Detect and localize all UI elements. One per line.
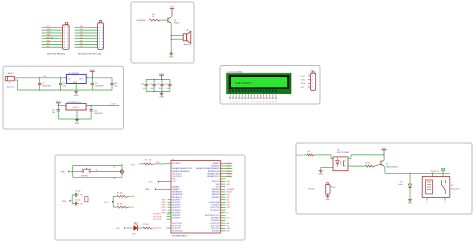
svg-text:D31: D31 [80, 35, 83, 37]
svg-text:15: 15 [272, 102, 274, 104]
svg-text:RELAY: RELAY [297, 154, 304, 157]
svg-text:GND: GND [47, 29, 52, 31]
ground opto [319, 168, 333, 176]
svg-text:PIC16F877A-I/P: PIC16F877A-I/P [172, 235, 188, 238]
module J1 pin header MODULE RFC002 [42, 22, 70, 55]
LCD module box [220, 66, 320, 105]
ground U1 [74, 84, 79, 97]
wire U2 output [86, 105, 119, 106]
svg-text:RB6/AN12/PGC: RB6/AN12/PGC [207, 175, 220, 178]
wire U2 input [58, 105, 66, 106]
svg-text:LS1: LS1 [186, 30, 189, 32]
capacitor C1 22p [72, 191, 80, 197]
svg-text:104: 104 [114, 86, 117, 88]
svg-text:104: 104 [52, 112, 55, 114]
svg-text:100uF/16V: 100uF/16V [94, 113, 104, 115]
svg-text:GND: GND [408, 203, 413, 205]
svg-text:C16: C16 [164, 84, 167, 86]
capacitor C10 104 [110, 81, 117, 90]
svg-text:VCC: VCC [301, 76, 306, 78]
svg-text:LCDRS: LCDRS [227, 173, 232, 175]
svg-text:SW2: SW2 [227, 184, 231, 186]
svg-text:PSP0: PSP0 [162, 199, 166, 201]
svg-text:VCC: VCC [149, 181, 154, 183]
svg-text:GND: GND [116, 228, 121, 230]
capacitor C12 100uF/16V [88, 105, 103, 119]
switch SW1 push button [81, 168, 97, 177]
crystal Y1 [85, 197, 88, 202]
svg-text:RST: RST [156, 162, 159, 164]
power VCC [170, 6, 175, 16]
module J2 pin header MODULE HD PRO 434 [75, 20, 104, 55]
wire top rail [14, 77, 112, 90]
svg-text:GND: GND [62, 201, 67, 203]
svg-text:104: 104 [151, 88, 154, 90]
svg-text:13: 13 [266, 102, 268, 104]
svg-text:RXD: RXD [47, 35, 52, 37]
svg-text:GND: GND [169, 57, 174, 59]
ground [169, 51, 174, 59]
svg-text:RB4/AN11 KBI0: RB4/AN11 KBI0 [207, 172, 219, 175]
capacitor C13 104 [141, 80, 148, 92]
svg-text:3: 3 [236, 102, 237, 104]
power VCC pullups [104, 196, 117, 207]
power VCC to VDD pin [149, 181, 171, 184]
ground decoupling rail [159, 91, 164, 98]
svg-text:GND: GND [145, 189, 150, 191]
svg-text:BUZ: BUZ [227, 231, 230, 233]
wire out rail [89, 77, 113, 81]
svg-text:VCC: VCC [104, 202, 109, 204]
svg-text:C14: C14 [149, 84, 152, 86]
power VCC decoupling rail [159, 73, 164, 79]
svg-text:XT2: XT2 [80, 203, 83, 205]
svg-text:RB1/AN10: RB1/AN10 [211, 165, 219, 168]
wire base [161, 19, 168, 21]
svg-text:D11: D11 [80, 29, 83, 31]
svg-text:SPEAKER: SPEAKER [136, 19, 146, 22]
svg-text:100uF/16V: 100uF/16V [42, 86, 52, 88]
capacitor C11 104 row2 [52, 105, 60, 119]
svg-text:Header 1: Header 1 [308, 189, 315, 191]
svg-text:104: 104 [143, 88, 146, 90]
transistor Q1 S9013 [168, 17, 179, 24]
net label RELAY [297, 154, 307, 157]
wire speaker stubs [171, 35, 184, 40]
power VCC out [90, 69, 95, 77]
connector JACK1 DC jack [5, 72, 14, 88]
regulator U1 LM7805 [65, 73, 89, 84]
svg-text:8: 8 [64, 47, 65, 49]
capacitor C8 104 [59, 78, 66, 90]
svg-text:JACK1: JACK1 [7, 72, 14, 75]
LCD pin pads [229, 89, 276, 92]
svg-text:SDA: SDA [301, 82, 306, 85]
svg-text:SW1: SW1 [227, 181, 231, 183]
svg-text:4: 4 [239, 102, 240, 104]
svg-text:RELAY-5V: RELAY-5V [431, 170, 440, 173]
svg-text:2: 2 [312, 79, 313, 81]
svg-text:R3 10k: R3 10k [117, 203, 123, 205]
wire emitter trunk [170, 23, 172, 50]
svg-text:Relay 5VDC: Relay 5VDC [451, 189, 461, 191]
svg-text:RD7/PSP7: RD7/PSP7 [153, 214, 161, 216]
resistor R9 1k [365, 162, 374, 167]
svg-text:4: 4 [99, 36, 100, 38]
svg-text:MCLR/VPP: MCLR/VPP [172, 163, 182, 165]
svg-text:RB3/AN9/PGM: RB3/AN9/PGM [208, 170, 220, 173]
svg-text:R2 10k: R2 10k [117, 193, 123, 195]
svg-text:2: 2 [64, 30, 65, 32]
svg-text:RC3/SCK/SCL: RC3/SCK/SCL [172, 231, 183, 233]
svg-text:PSP5: PSP5 [162, 212, 166, 214]
speaker LS1 [183, 30, 191, 46]
speaker driver module box [131, 2, 194, 63]
relay K1 5VDC [422, 177, 460, 198]
svg-text:RA0/AN0 RA4/AN4/T0CKI: RA0/AN0 RA4/AN4/T0CKI [172, 167, 192, 170]
svg-text:+3.3V: +3.3V [110, 104, 116, 106]
svg-text:14: 14 [269, 102, 271, 104]
svg-text:1k: 1k [96, 170, 98, 172]
svg-text:7: 7 [64, 44, 65, 46]
resistor R6 1k [149, 14, 160, 21]
svg-text:1: 1 [99, 27, 100, 29]
IC U4 left pin names [172, 163, 192, 233]
svg-text:8: 8 [99, 47, 100, 49]
ground LED [116, 227, 134, 230]
svg-text:LCD5: LCD5 [227, 166, 231, 168]
svg-text:6: 6 [99, 41, 100, 43]
port mark [442, 168, 445, 171]
resistor R1 10k [144, 159, 154, 165]
ground crystal [62, 195, 72, 204]
svg-text:Q2: Q2 [386, 164, 388, 166]
svg-text:PSP1: PSP1 [162, 202, 166, 204]
wire collector [170, 15, 173, 18]
capacitor C15 104 [156, 80, 163, 92]
svg-text:RE0/AN5/RD: RE0/AN5/RD [172, 191, 183, 194]
svg-text:RB7/KBI3: RB7/KBI3 [212, 197, 219, 199]
svg-text:MODULE RFC002: MODULE RFC002 [47, 54, 66, 56]
svg-text:RC0/T1OSO: RC0/T1OSO [153, 216, 163, 218]
svg-text:GND: GND [74, 95, 79, 97]
wire relay top pins [433, 171, 443, 177]
connector Header1 [308, 182, 336, 194]
svg-text:MODULE HD PRO 434: MODULE HD PRO 434 [78, 54, 102, 56]
svg-text:RC2/CCP1: RC2/CCP1 [154, 228, 162, 230]
svg-text:GND: GND [319, 174, 324, 176]
svg-text:ANT-EN: ANT-EN [47, 36, 55, 39]
wire LED-resistor [138, 227, 144, 229]
IC U4 right pins and net labels [220, 163, 235, 233]
svg-text:RA2/AN2: RA2/AN2 [172, 185, 179, 188]
svg-text:2: 2 [233, 102, 234, 104]
svg-text:GND: GND [159, 97, 164, 99]
ground to VSS pin [145, 188, 171, 191]
wire relay bottom pins [426, 197, 445, 204]
svg-text:GND: GND [301, 80, 306, 82]
svg-text:LM1117: LM1117 [73, 107, 80, 109]
svg-text:PSP4: PSP4 [162, 210, 166, 212]
svg-text:D2: D2 [400, 182, 402, 184]
svg-text:RE1/AN6/WR: RE1/AN6/WR [172, 193, 183, 196]
svg-text:1: 1 [230, 102, 231, 104]
svg-text:XT1: XT1 [80, 195, 83, 197]
svg-text:D1: D1 [113, 167, 115, 169]
svg-text:RC7/RX/DT: RC7/RX/DT [210, 210, 219, 212]
svg-text:100uF/25V: 100uF/25V [95, 86, 105, 88]
svg-text:D71: D71 [80, 46, 83, 48]
resistor R3 10k [117, 203, 134, 209]
wire opto collector to VCC rail [348, 154, 385, 158]
wire Q2 emitter to rail [384, 166, 450, 174]
svg-text:Diode: Diode [398, 184, 402, 186]
capacitor C7 100uF/16V [37, 78, 52, 90]
svg-text:S9013: S9013 [174, 22, 179, 24]
svg-text:3: 3 [312, 83, 313, 85]
svg-text:C15: C15 [156, 84, 159, 86]
svg-text:VCC: VCC [170, 6, 175, 8]
svg-text:SW-PB1: SW-PB1 [81, 175, 88, 177]
svg-text:1: 1 [64, 27, 65, 29]
svg-text:LCD4: LCD4 [227, 163, 231, 165]
svg-text:9: 9 [254, 102, 255, 104]
resistor R7 330 [143, 224, 153, 229]
transistor Q2 MMBT2222A [381, 160, 398, 168]
svg-text:1k: 1k [152, 16, 154, 18]
microcontroller module box [55, 155, 245, 240]
svg-text:D7: D7 [227, 212, 229, 214]
svg-text:PSP2: PSP2 [162, 205, 166, 207]
power supply module box [3, 66, 124, 129]
svg-text:C2 22p: C2 22p [75, 199, 81, 201]
svg-text:8: 8 [251, 102, 252, 104]
svg-text:4: 4 [64, 36, 65, 38]
svg-text:RC4/SDI/SDA: RC4/SDI/SDA [209, 201, 220, 204]
relay driver module box [296, 143, 472, 214]
svg-text:1: 1 [326, 187, 327, 189]
net labels left pins D group [162, 199, 171, 214]
LED D4 [132, 222, 138, 235]
wire cap rails [146, 79, 170, 92]
ground U2 [58, 110, 91, 125]
power VCC relay [381, 148, 386, 155]
svg-text:11: 11 [260, 102, 262, 104]
svg-text:D61: D61 [80, 43, 83, 45]
svg-text:VCC: VCC [131, 164, 136, 166]
svg-text:RA3/AN3: RA3/AN3 [172, 188, 179, 191]
svg-text:Speaker: Speaker [184, 44, 191, 46]
svg-text:D21: D21 [80, 32, 83, 34]
svg-text:Jack DC: Jack DC [6, 86, 14, 88]
net label RC2 [154, 228, 171, 230]
svg-text:6: 6 [245, 102, 246, 104]
svg-text:5: 5 [242, 102, 243, 104]
svg-text:EL817C1234AP: EL817C1234AP [337, 151, 350, 154]
IC U4 PIC16F877A [171, 159, 220, 238]
svg-text:GND: GND [60, 171, 65, 173]
svg-text:PSP3: PSP3 [162, 207, 166, 209]
svg-text:5: 5 [64, 38, 65, 40]
resistor R8 470 [307, 151, 315, 156]
svg-text:RD7/PSP7: RD7/PSP7 [172, 218, 180, 220]
diode D2 1N4148 [398, 173, 411, 190]
svg-text:2: 2 [326, 191, 327, 193]
regulator U2 LM1117-3.3 [66, 102, 86, 110]
svg-text:12: 12 [263, 102, 265, 104]
svg-text:D01: D01 [80, 26, 83, 28]
wire reset loop [73, 166, 122, 178]
net labels above LED [153, 214, 171, 221]
svg-text:TXD: TXD [47, 32, 51, 34]
ground Header1 [326, 194, 331, 201]
svg-text:Hello World !!: Hello World !! [235, 81, 252, 85]
svg-text:D41: D41 [80, 37, 83, 39]
svg-text:10: 10 [257, 102, 259, 104]
ground reset [60, 171, 72, 174]
svg-text:104: 104 [159, 88, 162, 90]
svg-text:104: 104 [63, 86, 66, 88]
wire Q2 collector [383, 155, 385, 160]
power VCC in row2 [56, 101, 61, 105]
diode D1 reset [113, 167, 124, 180]
svg-text:R7 330: R7 330 [143, 224, 149, 226]
svg-text:5: 5 [99, 38, 100, 40]
svg-text:3: 3 [99, 33, 100, 35]
svg-text:RC3/SCK: RC3/SCK [212, 231, 220, 233]
svg-text:3: 3 [64, 33, 65, 35]
svg-text:LCD7: LCD7 [227, 171, 231, 173]
wire MCLR [122, 163, 171, 165]
svg-text:VCC: VCC [47, 26, 52, 28]
svg-text:K1: K1 [451, 185, 453, 187]
svg-text:GND: GND [73, 82, 78, 84]
svg-text:6: 6 [64, 41, 65, 43]
wire to optocoupler [315, 155, 333, 159]
svg-text:R8: R8 [308, 151, 310, 153]
svg-text:LCDE: LCDE [227, 176, 231, 178]
svg-text:R1: R1 [145, 159, 147, 161]
svg-text:RA0/AN0 RB2/AN8 RB5/AN13: RA0/AN0 RB2/AN8 RB5/AN13 [196, 167, 219, 170]
wire opto emitter to R9 [348, 165, 365, 167]
optocoupler U3 EL817C [333, 150, 350, 171]
svg-text:4: 4 [312, 87, 313, 89]
svg-text:R9 1k: R9 1k [366, 162, 371, 164]
svg-text:7: 7 [248, 102, 249, 104]
svg-text:RA1/AN1 RA5/AN5/SS: RA1/AN1 RA5/AN5/SS [172, 170, 190, 173]
svg-text:10k: 10k [149, 159, 152, 161]
svg-text:SCL: SCL [227, 225, 230, 227]
svg-text:C1 22p: C1 22p [75, 191, 81, 193]
capacitor C14 104 [149, 80, 156, 92]
svg-text:GND: GND [326, 199, 331, 201]
svg-text:RE2/AN7/CS: RE2/AN7/CS [172, 196, 183, 199]
svg-text:D51: D51 [80, 40, 83, 42]
capacitor C9 100uF/25V [89, 78, 104, 90]
svg-text:2: 2 [99, 30, 100, 32]
LCD pins [229, 94, 277, 104]
ground diode [408, 190, 413, 204]
svg-text:104: 104 [167, 88, 170, 90]
svg-text:LCD6: LCD6 [227, 168, 231, 170]
svg-text:GND: GND [75, 123, 80, 125]
svg-text:16: 16 [275, 102, 277, 104]
svg-text:C13: C13 [141, 84, 144, 86]
capacitor C16 104 [164, 80, 171, 92]
LCD display body [227, 73, 292, 93]
svg-text:1: 1 [312, 76, 313, 78]
IC U4 right pin names [196, 163, 220, 233]
svg-text:SCL: SCL [131, 207, 134, 209]
resistor R2 10k [117, 193, 135, 199]
capacitor C2 22p [72, 199, 80, 205]
svg-text:Pin: Pin [113, 178, 116, 180]
connector P1 4-pin [301, 70, 316, 90]
svg-text:LED4: LED4 [134, 222, 138, 224]
wire to Q2 base [375, 164, 381, 166]
svg-text:RC1/T1OSI: RC1/T1OSI [153, 219, 162, 221]
svg-text:7: 7 [99, 44, 100, 46]
